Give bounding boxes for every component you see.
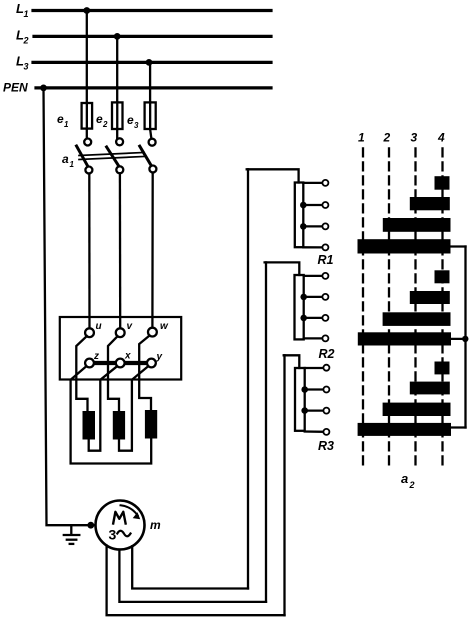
bus L2: [16, 28, 271, 46]
svg-text:y: y: [156, 352, 163, 363]
switch a1 coupling bar: [79, 153, 144, 160]
resistor R1: [247, 169, 329, 250]
wire terminal u to winding 1 top: [76, 336, 87, 411]
cam bar R1 contact 4: [358, 239, 451, 253]
wire cam common top: [451, 245, 466, 247]
svg-text:e: e: [57, 112, 64, 126]
cam bar R3 contact 1: [435, 362, 450, 375]
svg-text:2: 2: [23, 36, 29, 46]
wire terminal v to winding 2 top: [108, 336, 119, 411]
junction at motor: [87, 522, 94, 529]
resistor R2: [265, 262, 329, 341]
winding 2: [113, 411, 125, 440]
wire switch pole2 to terminal v: [119, 173, 122, 328]
label a2: [401, 471, 415, 490]
cam bar R3 contact 3: [383, 403, 451, 416]
svg-text:e: e: [96, 112, 103, 126]
svg-text:1: 1: [64, 120, 69, 129]
svg-text:w: w: [160, 321, 169, 332]
cam controller a2 position line 2: [388, 148, 390, 466]
wire terminal x to winding 1 bottom: [89, 366, 117, 450]
svg-text:3: 3: [411, 131, 418, 145]
svg-text:z: z: [93, 351, 99, 362]
wire L2 to fuse e2: [116, 36, 118, 102]
svg-text:1: 1: [358, 131, 365, 145]
motor m: [96, 501, 162, 550]
cam bar R1 contact 3: [383, 218, 451, 232]
cam bar R3 contact 2: [410, 382, 450, 395]
bus L3: [16, 54, 271, 72]
svg-text:3: 3: [134, 121, 139, 130]
cam bar R3 contact 4: [358, 423, 451, 436]
winding 1: [83, 411, 96, 440]
svg-text:a: a: [401, 471, 408, 486]
wire fuse e1 to switch: [86, 129, 88, 139]
wire PEN to motor: [44, 88, 96, 525]
terminal z: [85, 351, 99, 367]
wire riser R1: [247, 169, 249, 588]
wire riser R3: [283, 355, 285, 615]
wire cam common vertical: [464, 247, 466, 428]
wire terminal w to winding 3 top: [139, 336, 151, 411]
cam bar R1 contact 1: [435, 176, 450, 190]
cam controller a2 position line 1: [362, 148, 364, 466]
resistor R3: [284, 355, 330, 435]
bus L1: [16, 1, 271, 19]
motor lead 3 (outer): [107, 546, 285, 616]
cam controller a2 position line 3: [414, 148, 416, 466]
junction L2: [114, 33, 121, 40]
terminal w: [148, 321, 169, 337]
star shorting bar: [91, 361, 150, 365]
wire cam common middle: [451, 338, 466, 340]
terminal y: [147, 352, 163, 368]
junction cam common: [462, 336, 468, 342]
svg-text:u: u: [96, 321, 102, 332]
wire terminal z to winding 3 bottom (left loop): [71, 366, 152, 463]
svg-text:m: m: [150, 518, 161, 532]
svg-text:R2: R2: [319, 347, 335, 361]
fuse e3: [127, 102, 156, 130]
svg-text:a: a: [62, 152, 69, 166]
ground: [64, 525, 80, 544]
wire riser R2: [265, 262, 267, 602]
junction PEN: [40, 85, 47, 92]
wire switch pole1 to terminal u: [88, 174, 90, 329]
wire fuse e2 to switch: [116, 129, 118, 138]
wire cam common bottom: [451, 426, 466, 428]
svg-text:R1: R1: [318, 253, 334, 267]
svg-text:3: 3: [109, 527, 117, 543]
svg-text:x: x: [124, 351, 131, 362]
svg-text:1: 1: [24, 9, 29, 19]
svg-text:3: 3: [24, 62, 29, 72]
svg-text:e: e: [127, 113, 134, 127]
cam bar R1 contact 2: [410, 197, 450, 210]
junction L3: [146, 59, 153, 66]
wire L3 to fuse e3: [149, 62, 151, 102]
switch a1 pole 1: [77, 139, 93, 174]
svg-text:PEN: PEN: [3, 81, 28, 95]
wire switch pole3 to terminal w: [151, 173, 154, 328]
terminal box: [60, 317, 181, 380]
terminal u: [85, 321, 102, 337]
motor lead 1 (inner): [132, 546, 248, 588]
switch a1 pole 3: [140, 139, 157, 173]
cam bar R2 contact 3: [383, 312, 451, 326]
terminal x: [116, 351, 131, 368]
terminal v: [116, 321, 134, 337]
cam controller a2 position line 4: [441, 148, 443, 466]
fuse e1: [57, 103, 92, 129]
svg-text:2: 2: [102, 120, 108, 129]
winding 3: [145, 410, 157, 439]
svg-text:2: 2: [383, 131, 391, 145]
svg-text:2: 2: [409, 480, 415, 490]
wire terminal y to winding 2 bottom: [119, 366, 148, 450]
cam bar R2 contact 2: [410, 291, 450, 304]
svg-text:v: v: [127, 321, 134, 332]
label a1: [62, 152, 75, 169]
wire L1 to fuse e1: [86, 11, 88, 104]
bus PEN: [3, 81, 271, 95]
cam bar R2 contact 4: [358, 332, 451, 345]
svg-text:1: 1: [70, 160, 75, 169]
svg-text:R3: R3: [318, 439, 334, 453]
motor lead 2 (middle): [119, 550, 266, 602]
junction L1: [83, 7, 90, 14]
fuse e2: [96, 102, 123, 129]
switch a1 pole 2: [107, 138, 124, 173]
wire fuse e3 to switch: [150, 129, 151, 139]
cam bar R2 contact 1: [435, 270, 450, 283]
svg-text:4: 4: [437, 131, 445, 145]
